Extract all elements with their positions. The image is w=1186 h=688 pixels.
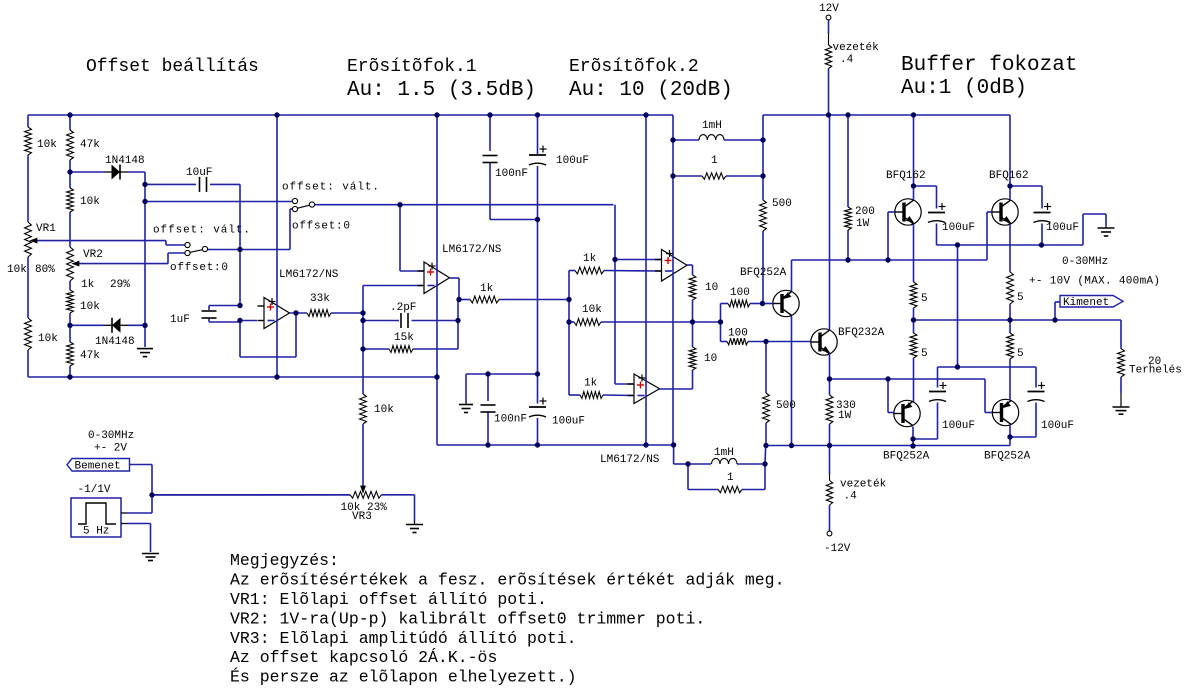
- svg-text:80%: 80%: [35, 264, 55, 276]
- svg-text:1N4148: 1N4148: [95, 336, 135, 348]
- svg-text:Offset beállítás: Offset beállítás: [86, 57, 259, 77]
- svg-text:100uF: 100uF: [1046, 222, 1079, 234]
- svg-text:Erõsítõfok.2: Erõsítõfok.2: [569, 57, 699, 77]
- svg-text:Au: 1.5 (3.5dB): Au: 1.5 (3.5dB): [347, 79, 536, 102]
- svg-text:500: 500: [776, 400, 796, 412]
- svg-text:29%: 29%: [110, 279, 130, 291]
- svg-text:1k: 1k: [81, 279, 95, 291]
- svg-text:Au: 10 (20dB): Au: 10 (20dB): [569, 79, 733, 102]
- svg-text:5: 5: [1017, 348, 1024, 360]
- svg-text:1mH: 1mH: [714, 447, 734, 459]
- svg-text:5: 5: [921, 293, 928, 305]
- svg-text:BFQ162: BFQ162: [886, 170, 926, 182]
- svg-text:1W: 1W: [838, 410, 852, 422]
- svg-text:BFQ252A: BFQ252A: [984, 451, 1031, 463]
- svg-text:5 Hz: 5 Hz: [83, 526, 109, 538]
- svg-text:0-30MHz: 0-30MHz: [88, 430, 134, 442]
- svg-text:Az offset kapcsoló 2Á.K.-ös: Az offset kapcsoló 2Á.K.-ös: [230, 648, 497, 667]
- svg-text:100uF: 100uF: [552, 416, 585, 428]
- svg-text:1N4148: 1N4148: [105, 155, 145, 167]
- svg-text:100: 100: [730, 287, 750, 299]
- svg-text:.4: .4: [844, 491, 858, 503]
- svg-text:Terhelés: Terhelés: [1129, 365, 1182, 377]
- svg-text:1uF: 1uF: [170, 314, 190, 326]
- svg-text:BFQ252A: BFQ252A: [740, 267, 787, 279]
- svg-text:És persze az elõlapon elhelyez: És persze az elõlapon elhelyezett.): [230, 668, 577, 687]
- svg-text:VR2: 1V-ra(Up-p) kalibrált off: VR2: 1V-ra(Up-p) kalibrált offset0 trimm…: [230, 610, 705, 629]
- svg-text:500: 500: [772, 198, 792, 210]
- svg-text:33k: 33k: [310, 293, 330, 305]
- svg-text:+- 10V (MAX. 400mA): +- 10V (MAX. 400mA): [1029, 276, 1160, 288]
- svg-text:Buffer fokozat: Buffer fokozat: [901, 54, 1077, 77]
- svg-text:100uF: 100uF: [556, 155, 589, 167]
- svg-text:1k: 1k: [583, 253, 597, 265]
- svg-text:10: 10: [704, 353, 717, 365]
- svg-text:Erõsítõfok.1: Erõsítõfok.1: [347, 57, 477, 77]
- svg-text:Bemenet: Bemenet: [75, 461, 121, 473]
- svg-text:100uF: 100uF: [942, 420, 975, 432]
- svg-text:VR1: Elõlapi offset állító pot: VR1: Elõlapi offset állító poti.: [230, 590, 547, 609]
- svg-text:vezeték: vezeték: [840, 479, 887, 491]
- svg-text:BFQ162: BFQ162: [989, 170, 1029, 182]
- svg-text:100nF: 100nF: [494, 414, 527, 426]
- svg-text:5: 5: [921, 348, 928, 360]
- svg-text:-12V: -12V: [824, 543, 851, 555]
- svg-text:Kimenet: Kimenet: [1063, 297, 1109, 309]
- svg-text:5: 5: [1017, 292, 1024, 304]
- svg-text:1: 1: [711, 155, 718, 167]
- svg-text:1W: 1W: [856, 218, 870, 230]
- svg-text:1: 1: [727, 472, 734, 484]
- svg-text:Az erõsítésértékek a fesz. erõ: Az erõsítésértékek a fesz. erõsítések ér…: [230, 571, 785, 590]
- svg-text:offset:0: offset:0: [292, 221, 350, 233]
- svg-text:10k: 10k: [374, 404, 394, 416]
- svg-text:.4: .4: [840, 54, 854, 66]
- svg-text:BFQ232A: BFQ232A: [838, 327, 885, 339]
- svg-text:-1/1V: -1/1V: [78, 484, 111, 496]
- svg-text:10uF: 10uF: [186, 167, 212, 179]
- svg-text:100uF: 100uF: [1041, 420, 1074, 432]
- svg-text:VR1: VR1: [36, 223, 56, 235]
- svg-text:LM6172/NS: LM6172/NS: [442, 244, 502, 256]
- svg-text:100: 100: [728, 328, 748, 340]
- svg-text:10k: 10k: [80, 301, 100, 313]
- svg-text:15k: 15k: [394, 332, 414, 344]
- svg-text:+- 2V: +- 2V: [94, 443, 127, 455]
- svg-text:VR3: VR3: [352, 511, 372, 523]
- svg-text:VR2: VR2: [83, 249, 103, 261]
- svg-text:10: 10: [705, 282, 718, 294]
- svg-text:100nF: 100nF: [495, 168, 528, 180]
- svg-text:0-30MHz: 0-30MHz: [1062, 256, 1108, 268]
- svg-text:offset: vált.: offset: vált.: [153, 225, 250, 237]
- svg-text:10k: 10k: [582, 304, 602, 316]
- svg-text:10k: 10k: [7, 264, 27, 276]
- svg-text:offset:0: offset:0: [170, 262, 228, 274]
- svg-text:1k: 1k: [480, 283, 494, 295]
- svg-text:offset: vált.: offset: vált.: [282, 182, 379, 194]
- svg-text:1mH: 1mH: [702, 120, 722, 132]
- svg-text:47k: 47k: [80, 350, 100, 362]
- svg-text:Megjegyzés:: Megjegyzés:: [230, 551, 339, 570]
- svg-text:47k: 47k: [80, 139, 100, 151]
- svg-text:.2pF: .2pF: [390, 302, 416, 314]
- svg-text:BFQ252A: BFQ252A: [883, 451, 930, 463]
- svg-text:100uF: 100uF: [942, 222, 975, 234]
- svg-text:LM6172/NS: LM6172/NS: [600, 454, 660, 466]
- svg-text:VR3: Elõlapi amplitúdó állító: VR3: Elõlapi amplitúdó állító poti.: [230, 629, 577, 648]
- svg-text:LM6172/NS: LM6172/NS: [279, 269, 339, 281]
- svg-text:200: 200: [855, 206, 875, 218]
- svg-text:1k: 1k: [584, 378, 598, 390]
- svg-text:10k: 10k: [38, 333, 58, 345]
- svg-text:12V: 12V: [819, 3, 839, 15]
- svg-text:vezeték: vezeték: [833, 42, 880, 54]
- svg-text:10k: 10k: [37, 139, 57, 151]
- svg-text:10k: 10k: [80, 196, 100, 208]
- svg-text:Au:1 (0dB): Au:1 (0dB): [901, 77, 1027, 100]
